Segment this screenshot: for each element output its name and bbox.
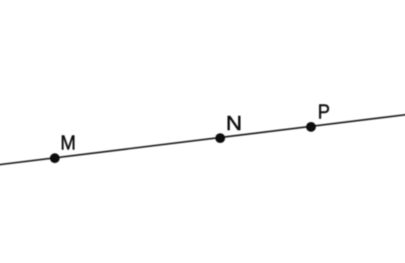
- svg-text:N: N: [226, 112, 242, 135]
- svg-text:M: M: [60, 131, 76, 154]
- svg-text:P: P: [318, 100, 330, 123]
